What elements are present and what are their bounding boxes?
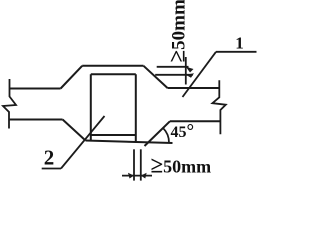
leader line 2 tail	[42, 168, 61, 170]
left plate bottom edge	[9, 119, 63, 121]
top dimension arrowhead upper	[186, 67, 194, 73]
bottom dimension arrowhead left	[128, 173, 134, 179]
svg-text:1: 1	[235, 34, 244, 53]
svg-text:2: 2	[44, 146, 55, 170]
45deg angle arc	[163, 128, 169, 143]
inner plate rectangle right edge	[135, 74, 137, 141]
middle section top edge	[82, 65, 143, 67]
inner plate rectangle left edge	[90, 74, 92, 141]
middle section bottom edge with 45deg reference extension	[86, 141, 173, 144]
top dimension line vertical	[185, 57, 187, 85]
bottom dimension arrowhead right	[141, 173, 147, 179]
chamfer top-left	[61, 66, 83, 89]
right plate top edge	[168, 87, 220, 89]
top dimension extension line upper	[157, 66, 189, 68]
right plate bottom edge	[170, 120, 220, 122]
right break line zigzag	[212, 80, 225, 134]
svg-text:≥50mm: ≥50mm	[151, 152, 212, 177]
left break line zigzag	[3, 79, 16, 129]
top dimension extension line lower	[155, 74, 193, 76]
leader line 2 diagonal	[61, 116, 105, 169]
bottom dimension line	[122, 175, 152, 177]
left plate top edge	[10, 88, 61, 90]
leader line 1 diagonal	[183, 52, 217, 97]
top dimension arrowhead lower	[186, 73, 194, 78]
leader line 1 underline	[216, 51, 257, 53]
bottom dimension extension line right	[140, 149, 142, 180]
chamfer bottom-right 45deg	[145, 121, 171, 146]
inner plate rectangle bottom edge (weld seam)	[91, 134, 136, 136]
chamfer bottom-left	[63, 120, 86, 141]
svg-text:≥50mm: ≥50mm	[165, 0, 190, 63]
svg-text:45°: 45°	[171, 121, 195, 142]
bottom dimension extension line left	[133, 149, 135, 180]
chamfer top-right	[144, 66, 168, 88]
inner plate rectangle top edge	[91, 73, 136, 75]
